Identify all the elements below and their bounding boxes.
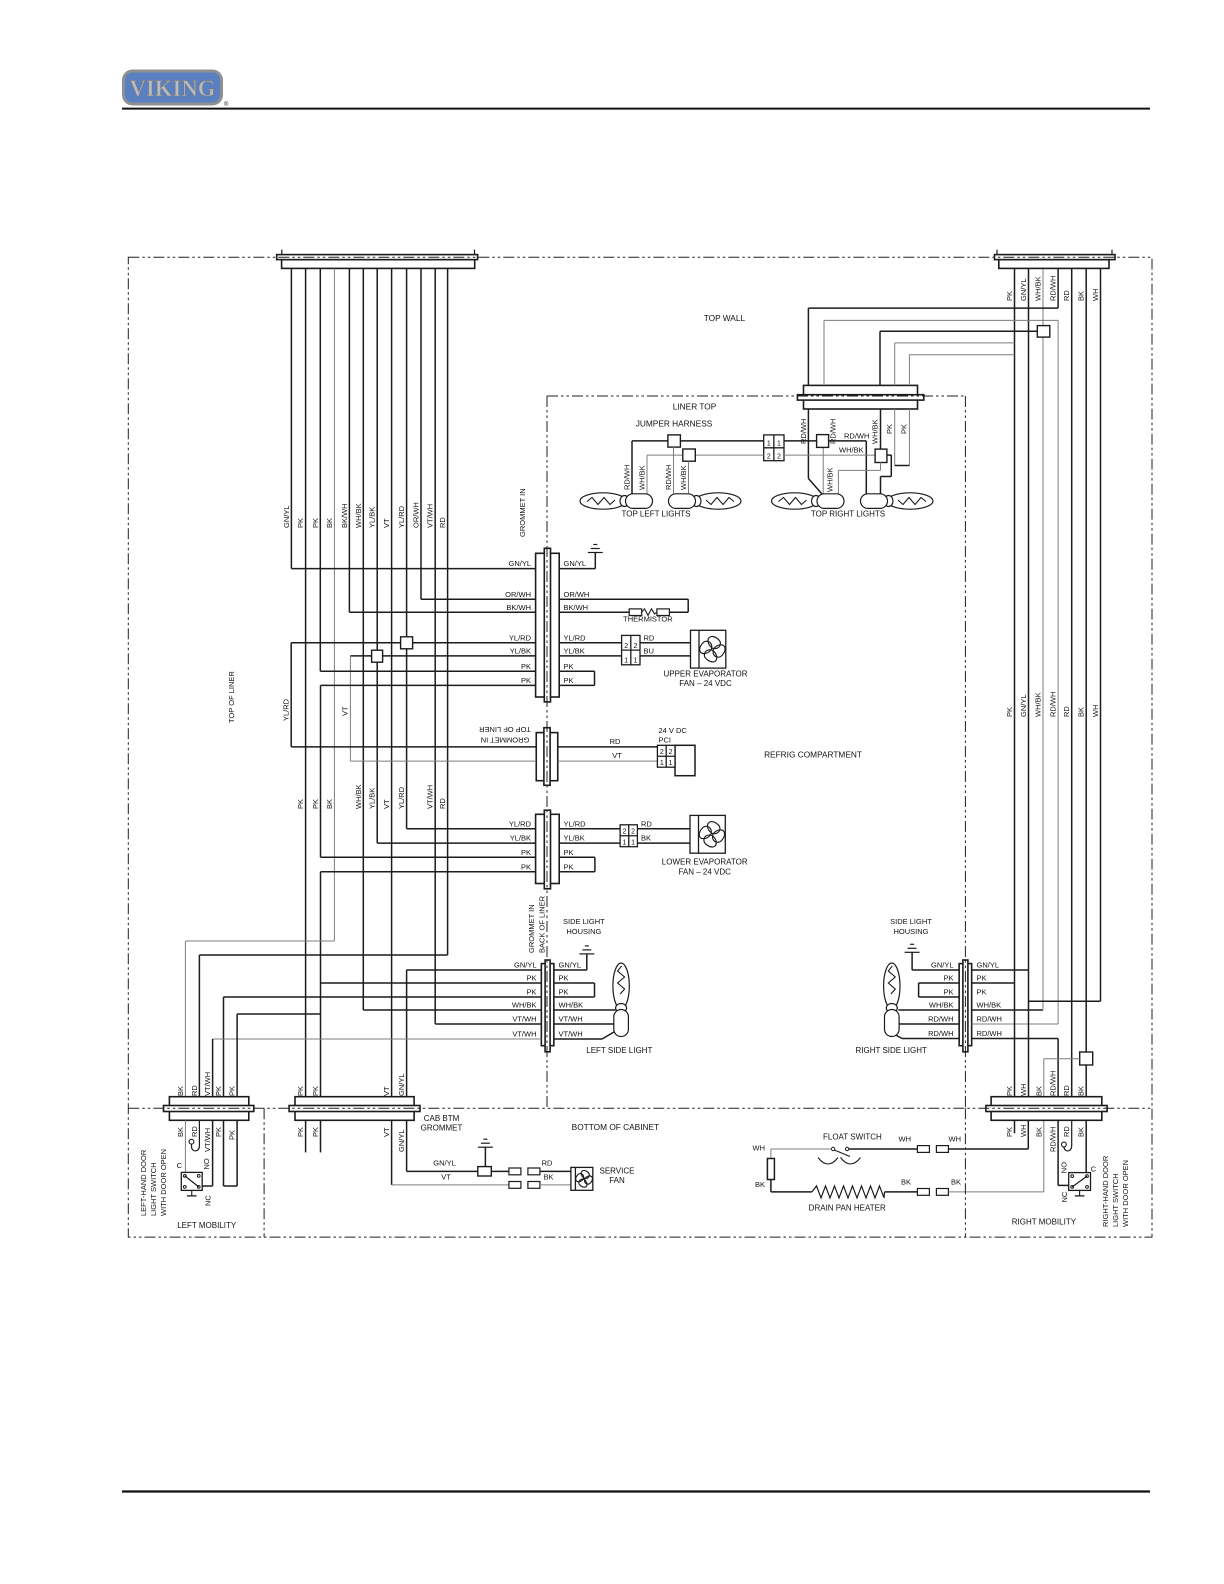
wire YL/RD into grommet 3 xyxy=(407,828,536,830)
svg-text:PK: PK xyxy=(526,974,536,983)
svg-text:BK: BK xyxy=(1034,1086,1043,1096)
wire WH float switch right leg xyxy=(849,1148,918,1150)
wire YL/RD xyxy=(406,268,408,828)
wire PK (2) side light right, jumper loop xyxy=(919,982,960,984)
svg-text:YL/RD: YL/RD xyxy=(281,698,290,721)
svg-text:WH/BK: WH/BK xyxy=(929,1001,954,1010)
svg-text:2: 2 xyxy=(631,829,635,836)
upper evaporator fan U-FAN1 xyxy=(691,630,727,668)
svg-text:NO: NO xyxy=(1060,1162,1069,1173)
svg-text:FAN: FAN xyxy=(609,1176,625,1185)
junction box right RD/WH xyxy=(817,435,829,448)
wire BK connector to lower fan xyxy=(637,842,690,844)
terminal pair WH xyxy=(917,1146,929,1153)
right mobility box dash-dot edge xyxy=(964,1108,966,1237)
svg-text:BK: BK xyxy=(951,1177,961,1186)
svg-text:FAN – 24 VDC: FAN – 24 VDC xyxy=(679,679,732,688)
svg-text:VT: VT xyxy=(382,1127,391,1137)
wire BK to left door xyxy=(185,940,334,942)
svg-text:HOUSING: HOUSING xyxy=(893,927,928,936)
svg-text:PK: PK xyxy=(1005,1086,1014,1096)
svg-text:WH: WH xyxy=(1019,1084,1028,1097)
svg-text:PK: PK xyxy=(296,1127,305,1137)
bottom-of-cabinet dash-dot line xyxy=(128,1107,1152,1109)
svg-text:1: 1 xyxy=(622,840,626,847)
wire PK (1) side light right xyxy=(972,982,1015,984)
wire YL/BK into grommet 3 xyxy=(377,842,535,844)
svg-text:PK: PK xyxy=(521,676,531,685)
svg-text:RD: RD xyxy=(1062,1126,1071,1137)
wire GN/YL side light right + ground xyxy=(972,969,1029,971)
svg-text:BK: BK xyxy=(543,1172,553,1181)
svg-text:1: 1 xyxy=(669,760,673,767)
wire RD to service fan xyxy=(540,1170,571,1172)
wire GN/YL right bundle xyxy=(1028,269,1030,970)
wire PK (2) side light left, jumper loop xyxy=(224,996,542,998)
svg-text:C: C xyxy=(177,1161,183,1170)
wire OR/WH into grommet 1, to thermistor xyxy=(421,598,536,600)
svg-text:VIKING: VIKING xyxy=(130,76,216,101)
PK jumper loop right of grommet 1 xyxy=(559,670,594,672)
junction box BK xyxy=(1080,1052,1093,1065)
wire PK (2) top bar to liner grommet xyxy=(319,268,321,671)
svg-text:PK: PK xyxy=(311,799,320,809)
svg-text:PK: PK xyxy=(1005,291,1014,301)
right side light bulb xyxy=(884,963,900,1037)
wire YL/RD grommet to connector xyxy=(559,642,621,644)
svg-text:1: 1 xyxy=(767,441,771,448)
svg-text:BK/WH: BK/WH xyxy=(564,603,589,612)
svg-text:LIGHT SWITCH: LIGHT SWITCH xyxy=(1111,1173,1120,1227)
svg-text:2: 2 xyxy=(633,643,637,650)
svg-text:RD: RD xyxy=(190,1126,199,1137)
ground (right side light housing) xyxy=(905,944,920,952)
svg-text:GN/YL: GN/YL xyxy=(977,961,1000,970)
svg-text:WITH DOOR OPEN: WITH DOOR OPEN xyxy=(1121,1160,1130,1227)
svg-text:RD/WH: RD/WH xyxy=(1049,692,1058,717)
wire PK (2) out of grommet 3 xyxy=(321,871,536,873)
wire RD/WH to switch xyxy=(1057,1120,1059,1185)
wire RD to left door xyxy=(199,954,447,956)
wire RD NO hook xyxy=(192,1120,200,1151)
PK jumper loop right of grommet 3 xyxy=(559,856,595,858)
svg-text:RD: RD xyxy=(641,819,652,828)
svg-text:YL/RD: YL/RD xyxy=(397,505,406,528)
svg-text:PK: PK xyxy=(1005,707,1014,717)
svg-text:OR/WH: OR/WH xyxy=(564,590,590,599)
wire PK (2) out of grommet 1 xyxy=(321,684,536,686)
svg-text:CAB BTM: CAB BTM xyxy=(424,1114,460,1123)
wire RD right bundle xyxy=(1071,269,1073,1098)
svg-text:GN/YL: GN/YL xyxy=(397,1073,406,1096)
svg-text:WH/BK: WH/BK xyxy=(826,467,835,492)
wire RD to 24VDC PCI xyxy=(291,746,536,748)
wire VT/WH xyxy=(434,268,436,1022)
wire BK/WH into grommet 1, to thermistor xyxy=(349,611,535,613)
svg-text:RD: RD xyxy=(542,1158,553,1167)
svg-text:HOUSING: HOUSING xyxy=(566,927,601,936)
svg-text:RD/WH: RD/WH xyxy=(1049,276,1058,301)
svg-text:VT/WH: VT/WH xyxy=(426,785,435,809)
svg-text:YL/BK: YL/BK xyxy=(368,788,377,809)
wire VT/WH side light left xyxy=(434,1022,436,1024)
svg-text:TOP OF LINER: TOP OF LINER xyxy=(479,725,531,734)
svg-text:WH: WH xyxy=(1019,1125,1028,1138)
svg-text:YL/RD: YL/RD xyxy=(509,633,532,642)
cab btm grommet bar xyxy=(289,1097,420,1121)
svg-text:YL/RD: YL/RD xyxy=(397,786,406,809)
diagonal RD/WH to bulb xyxy=(808,479,822,495)
svg-text:WH/BK: WH/BK xyxy=(1034,276,1043,301)
svg-text:RD: RD xyxy=(1062,1085,1071,1096)
svg-text:RD/WH: RD/WH xyxy=(799,419,808,444)
svg-text:RIGHT-HAND DOOR: RIGHT-HAND DOOR xyxy=(1101,1155,1110,1227)
junction box on YL/BK xyxy=(372,650,383,662)
wire VT/WH to switch NO xyxy=(212,1120,214,1186)
wire RD/WH from top bar xyxy=(1057,269,1059,308)
RD/WH harness wire (left run) xyxy=(632,440,764,442)
svg-text:GN/YL: GN/YL xyxy=(1019,278,1028,301)
svg-text:BK/WH: BK/WH xyxy=(340,503,349,528)
Viking logo xyxy=(124,71,222,104)
liner top riser wires to top wall xyxy=(807,308,809,385)
svg-text:RD/WH: RD/WH xyxy=(1049,1071,1058,1096)
svg-text:YL/BK: YL/BK xyxy=(564,647,585,656)
svg-text:WH/BK: WH/BK xyxy=(512,1001,537,1010)
jumper box J2 xyxy=(683,449,696,461)
svg-text:WH/BK: WH/BK xyxy=(871,419,880,444)
grommet side light right xyxy=(959,960,972,1052)
svg-text:VT/WH: VT/WH xyxy=(512,1030,536,1039)
svg-text:GROMMET: GROMMET xyxy=(421,1124,463,1133)
float switch symbol xyxy=(831,1147,834,1150)
wire RD NO hook right xyxy=(1064,1120,1072,1151)
liner top dash-dot line xyxy=(547,395,965,397)
svg-text:2: 2 xyxy=(669,749,673,756)
svg-text:LIGHT SWITCH: LIGHT SWITCH xyxy=(149,1162,158,1216)
WH/BK jog to right bulb xyxy=(887,454,891,456)
svg-text:PK: PK xyxy=(564,662,574,671)
svg-text:OR/WH: OR/WH xyxy=(412,502,421,528)
svg-text:PK: PK xyxy=(228,1086,237,1096)
svg-text:WH: WH xyxy=(1091,705,1100,718)
svg-text:1: 1 xyxy=(631,840,635,847)
wire BK gray jog to junction box xyxy=(1044,1058,1080,1060)
svg-text:1: 1 xyxy=(777,441,781,448)
wire RD xyxy=(447,268,449,955)
svg-text:VT/WH: VT/WH xyxy=(559,1030,583,1039)
svg-text:PK: PK xyxy=(521,848,531,857)
svg-text:TOP RIGHT LIGHTS: TOP RIGHT LIGHTS xyxy=(811,510,885,519)
svg-text:RD/WH: RD/WH xyxy=(829,419,838,444)
svg-text:2: 2 xyxy=(622,829,626,836)
svg-text:GN/YL: GN/YL xyxy=(559,961,582,970)
svg-text:TOP LEFT LIGHTS: TOP LEFT LIGHTS xyxy=(622,510,691,519)
svg-text:VT/WH: VT/WH xyxy=(203,1072,212,1096)
svg-text:SERVICE: SERVICE xyxy=(600,1166,635,1175)
svg-text:YL/BK: YL/BK xyxy=(510,647,531,656)
svg-text:NC: NC xyxy=(1060,1191,1069,1202)
svg-text:PK: PK xyxy=(311,518,320,528)
svg-text:RD: RD xyxy=(438,517,447,528)
svg-text:FAN – 24 VDC: FAN – 24 VDC xyxy=(678,867,731,876)
svg-text:YL/BK: YL/BK xyxy=(510,834,531,843)
svg-text:RD/WH: RD/WH xyxy=(977,1015,1002,1024)
PCI body xyxy=(675,745,695,775)
svg-text:PK: PK xyxy=(564,862,574,871)
bulb L2 xyxy=(669,493,742,509)
svg-text:BU: BU xyxy=(644,647,654,656)
svg-text:PK: PK xyxy=(559,974,569,983)
svg-text:BK/WH: BK/WH xyxy=(506,603,531,612)
service fan xyxy=(571,1167,594,1190)
wire WH/BK side light left xyxy=(363,1009,541,1011)
footer rule xyxy=(122,1490,1150,1492)
svg-text:NC: NC xyxy=(204,1195,213,1206)
wire WH/BK xyxy=(362,268,364,1010)
svg-text:LEFT MOBILITY: LEFT MOBILITY xyxy=(177,1221,237,1230)
svg-text:PK: PK xyxy=(296,1086,305,1096)
wire RD/WH side light right xyxy=(972,1023,1059,1025)
liner right dash-dot line xyxy=(964,396,966,1108)
svg-text:REFRIG COMPARTMENT: REFRIG COMPARTMENT xyxy=(764,750,862,760)
svg-text:BK: BK xyxy=(325,518,334,528)
svg-text:RD: RD xyxy=(610,737,621,746)
right door connector bar xyxy=(986,1097,1107,1121)
svg-text:BK: BK xyxy=(1077,707,1086,717)
svg-text:WH: WH xyxy=(753,1144,766,1153)
svg-text:PK: PK xyxy=(564,676,574,685)
svg-text:THERMISTOR: THERMISTOR xyxy=(623,615,673,624)
svg-text:PK: PK xyxy=(526,988,536,997)
junction box GN/YL ground xyxy=(478,1167,492,1176)
svg-text:®: ® xyxy=(224,101,229,108)
svg-text:PK: PK xyxy=(943,988,953,997)
wire WH float switch left leg xyxy=(771,1148,832,1150)
svg-text:BOTTOM OF CABINET: BOTTOM OF CABINET xyxy=(572,1122,659,1132)
WH/BK harness wire (right run) xyxy=(784,454,875,456)
top wall left harness connector bar xyxy=(277,255,478,269)
wire RD/WH side light to door bar xyxy=(1057,1039,1059,1098)
wire BK to switch C xyxy=(1085,1120,1087,1172)
wire YL/RD into grommet 1 (with junction box) xyxy=(291,642,535,644)
svg-text:RD: RD xyxy=(644,633,655,642)
svg-text:VT/WH: VT/WH xyxy=(512,1015,536,1024)
bulb R2 xyxy=(861,493,934,509)
svg-text:JUMPER HARNESS: JUMPER HARNESS xyxy=(636,419,713,429)
svg-text:RIGHT MOBILITY: RIGHT MOBILITY xyxy=(1012,1218,1077,1227)
svg-text:PK: PK xyxy=(1005,1127,1014,1137)
jumper box J1 xyxy=(668,435,681,447)
grommet in top of liner (upper) xyxy=(536,548,560,702)
svg-text:FLOAT SWITCH: FLOAT SWITCH xyxy=(823,1133,882,1142)
svg-text:TOP WALL: TOP WALL xyxy=(704,313,746,323)
left door connector bar xyxy=(164,1097,254,1121)
PK jumper U left door xyxy=(224,1185,238,1187)
wire WH jog xyxy=(1029,1000,1101,1002)
wire PK (1) side light left xyxy=(321,982,542,984)
svg-text:LEFT SIDE LIGHT: LEFT SIDE LIGHT xyxy=(586,1046,652,1055)
svg-text:DRAIN PAN HEATER: DRAIN PAN HEATER xyxy=(809,1204,886,1213)
svg-text:WH/BK: WH/BK xyxy=(679,465,688,490)
svg-text:PK: PK xyxy=(214,1127,223,1137)
svg-text:C: C xyxy=(1091,1165,1097,1174)
svg-text:VT: VT xyxy=(441,1172,451,1181)
terminal pair GN/YL-RD xyxy=(509,1168,521,1175)
terminal pair BK xyxy=(917,1189,929,1196)
wire WH/BK liner-top to right side light xyxy=(1057,320,1059,1024)
svg-text:PK: PK xyxy=(296,518,305,528)
svg-text:RD: RD xyxy=(190,1085,199,1096)
svg-text:RD/WH: RD/WH xyxy=(623,465,632,490)
wire BK left leg xyxy=(770,1180,772,1192)
wire YL/BK grommet to connector xyxy=(559,655,621,657)
PK stubs below cab btm xyxy=(305,1120,307,1152)
svg-text:VT: VT xyxy=(382,518,391,528)
wire PK (1) into grommet 1 xyxy=(320,670,535,672)
svg-text:BK: BK xyxy=(1034,1127,1043,1137)
grommet in back of liner xyxy=(536,810,560,889)
svg-text:PK: PK xyxy=(214,1086,223,1096)
svg-text:LOWER EVAPORATOR: LOWER EVAPORATOR xyxy=(662,858,748,867)
svg-text:RD/WH: RD/WH xyxy=(928,1029,953,1038)
svg-text:RIGHT SIDE LIGHT: RIGHT SIDE LIGHT xyxy=(855,1046,927,1055)
wire VT to 24VDC PCI xyxy=(350,760,536,762)
svg-text:BK: BK xyxy=(176,1127,185,1137)
svg-text:SIDE LIGHT: SIDE LIGHT xyxy=(563,917,605,926)
svg-text:WH/BK: WH/BK xyxy=(638,465,647,490)
svg-text:VT: VT xyxy=(382,1086,391,1096)
svg-text:WH/BK: WH/BK xyxy=(1034,692,1043,717)
svg-text:2: 2 xyxy=(767,454,771,461)
PK jumper U xyxy=(895,465,910,467)
svg-text:PCI: PCI xyxy=(659,736,672,745)
svg-text:GN/YL: GN/YL xyxy=(282,505,291,528)
wire WH/BK side light right xyxy=(972,1009,1043,1011)
svg-text:BK: BK xyxy=(325,799,334,809)
drop J1 to bulb xyxy=(673,447,675,494)
connector 11/22 jumper harness xyxy=(764,435,784,461)
svg-text:LINER TOP: LINER TOP xyxy=(673,401,717,411)
connector 22/11 upper fan xyxy=(622,635,640,664)
svg-text:VT/WH: VT/WH xyxy=(559,1015,583,1024)
liner left dash-dot line xyxy=(546,396,548,1108)
svg-text:PK: PK xyxy=(521,862,531,871)
wire OR/WH xyxy=(420,268,422,599)
wire WH/BK right bundle xyxy=(1042,269,1044,1010)
svg-text:RD/WH: RD/WH xyxy=(844,431,869,440)
wire BK right bundle xyxy=(1085,269,1087,1098)
svg-text:PK: PK xyxy=(311,1086,320,1096)
svg-text:SIDE LIGHT: SIDE LIGHT xyxy=(890,917,932,926)
svg-text:RD/WH: RD/WH xyxy=(977,1029,1002,1038)
lower evaporator fan U-FAN2 xyxy=(690,815,726,853)
outer cabinet dash-dot border xyxy=(128,257,1152,1237)
svg-text:TOP OF LINER: TOP OF LINER xyxy=(227,671,236,723)
svg-text:RD/WH: RD/WH xyxy=(1049,1127,1058,1152)
bulb L1 xyxy=(580,493,653,509)
svg-text:BK: BK xyxy=(1077,1086,1086,1096)
terminal WH-BK xyxy=(767,1159,774,1180)
terminal pair VT-BK xyxy=(509,1182,521,1189)
wire RD connector to fan xyxy=(640,642,691,644)
top wall right harness connector bar xyxy=(995,255,1116,269)
svg-text:LEFT-HAND DOOR: LEFT-HAND DOOR xyxy=(139,1149,148,1216)
wire BK to switch C xyxy=(184,1120,186,1172)
svg-text:WH/BK: WH/BK xyxy=(559,1001,584,1010)
junction box on WH/BK top xyxy=(1037,326,1050,338)
wire PK stub right door xyxy=(1014,1120,1016,1133)
svg-text:BK: BK xyxy=(901,1177,911,1186)
svg-text:PK: PK xyxy=(564,848,574,857)
WH/BK harness wire (left run) xyxy=(647,454,764,456)
svg-text:BK: BK xyxy=(1077,291,1086,301)
wire PK right bundle xyxy=(1014,269,1016,1098)
svg-text:PK: PK xyxy=(296,799,305,809)
svg-text:1: 1 xyxy=(660,760,664,767)
svg-text:RD/WH: RD/WH xyxy=(664,465,673,490)
svg-text:PK: PK xyxy=(559,988,569,997)
svg-text:WH: WH xyxy=(899,1134,912,1143)
svg-text:BK: BK xyxy=(641,834,651,843)
wire PK below grommet 2 xyxy=(908,409,910,466)
svg-text:2: 2 xyxy=(624,643,628,650)
svg-text:PK: PK xyxy=(885,424,894,434)
wire PK2 door to main PK xyxy=(237,1013,320,1015)
wire PK below grommet xyxy=(894,409,896,466)
RD/WH harness wire (right run) xyxy=(784,440,866,442)
ground (service fan) xyxy=(478,1139,493,1147)
right-hand door light switch xyxy=(1069,1173,1091,1191)
ground (liner top) xyxy=(588,545,603,553)
wire PK (1) top bar to cab-btm grommet xyxy=(305,268,307,1098)
wire PK stub pair xyxy=(223,1120,225,1186)
svg-text:BACK OF LINER: BACK OF LINER xyxy=(538,895,547,953)
wire GN/YL to service fan xyxy=(406,1120,408,1171)
grommet side light left xyxy=(541,960,554,1052)
bulb R1 xyxy=(772,493,845,509)
svg-text:GN/YL: GN/YL xyxy=(1019,694,1028,717)
svg-text:YL/RD: YL/RD xyxy=(564,819,587,828)
svg-text:VT: VT xyxy=(340,706,349,716)
svg-text:VT: VT xyxy=(382,799,391,809)
wire BK gray to door bar xyxy=(1043,1059,1045,1098)
left-hand door light switch xyxy=(181,1172,202,1190)
svg-text:2: 2 xyxy=(660,749,664,756)
svg-text:WH/BK: WH/BK xyxy=(354,503,363,528)
junction box right WH/BK xyxy=(875,449,887,462)
svg-text:WH/BK: WH/BK xyxy=(839,446,864,455)
thermistor xyxy=(629,609,642,616)
svg-text:GN/YL: GN/YL xyxy=(433,1158,456,1167)
svg-text:RD: RD xyxy=(1062,290,1071,301)
svg-text:RD: RD xyxy=(438,798,447,809)
svg-text:RD/WH: RD/WH xyxy=(928,1015,953,1024)
svg-text:GROMMET IN: GROMMET IN xyxy=(518,488,527,537)
drop J2 to bulb xyxy=(688,461,690,494)
left side light bulb xyxy=(613,963,629,1037)
wire BU connector to fan xyxy=(640,655,691,657)
wires below liner grommet to lights xyxy=(807,409,809,479)
header rule xyxy=(122,108,1150,110)
svg-text:PK: PK xyxy=(977,988,987,997)
svg-text:PK: PK xyxy=(228,1130,237,1140)
svg-text:GROMMET IN: GROMMET IN xyxy=(481,736,530,745)
svg-text:YL/BK: YL/BK xyxy=(564,834,585,843)
connector 22/11 PCI xyxy=(657,745,675,767)
wire RD/WH (2) side light right with diagonal xyxy=(972,1038,1059,1040)
svg-text:GN/YL: GN/YL xyxy=(931,961,954,970)
